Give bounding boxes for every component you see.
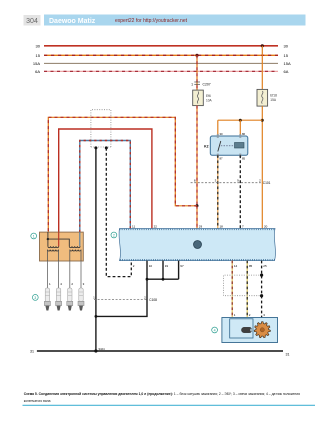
bus 15A [44,62,278,64]
svg-text:22: 22 [154,225,158,229]
svg-text:9: 9 [237,179,239,183]
svg-text:10A: 10A [206,99,213,103]
wire down to relay pin 86 [239,120,241,136]
svg-text:2: 2 [71,282,73,286]
wire red: coil to ECU pin 22 [59,129,152,232]
ECU ground pins 10 19 97 comb [146,261,148,280]
shield box around ignition sensor leads (upper) [91,110,111,147]
wire down to relay pin 30 [217,120,219,136]
wire fuse Ef6 down to node, crossing C101 [196,106,198,206]
svg-text:11: 11 [132,225,135,229]
wire CKP shield (black dashed) ECU pin 25 to sensor pin 3 [261,261,263,318]
svg-text:7: 7 [242,225,244,229]
header page number box [24,15,41,26]
footer rule [23,404,316,406]
svg-text:3: 3 [263,313,265,317]
node branch to relay coil [239,119,242,122]
svg-text:2: 2 [259,179,261,183]
node on bus 30 feeding fuse Ef18 [261,44,264,47]
svg-text:30: 30 [284,44,289,49]
svg-text:1: 1 [33,234,35,238]
svg-text:2: 2 [144,295,146,299]
svg-text:30: 30 [220,132,224,136]
wire relay 87 to ECU pin 18 (orange/black) [217,155,219,228]
svg-text:коленчатого вала: коленчатого вала [24,399,51,403]
svg-text:C207: C207 [203,82,211,86]
node on bus 15 feeding fuse Ef6 [195,54,198,57]
svg-text:3: 3 [34,296,36,300]
wire internal feed jumper [47,232,49,239]
wire branch to ignition coil: left then up then left [48,117,197,232]
svg-text:85: 85 [242,156,246,160]
connector C207 pin 1 [194,81,200,83]
wire relay 85 to ECU pin 7 (black dashed) [239,155,241,228]
component callout 2 [111,232,117,238]
svg-text:1: 1 [93,295,95,299]
ECU U1 (component 2) body [119,229,275,261]
bus 15 [44,54,278,56]
coil T2 primary [69,246,80,247]
component callout 1 [31,233,37,239]
component callout 3 [32,295,38,301]
wire blue lead inside module [79,232,81,246]
svg-text:15A: 15A [270,98,277,102]
reluctor gear [254,322,270,338]
fuse Ef6 10A [193,90,204,106]
node at relay feed split [261,119,264,122]
ECU bottom ticked edge [120,259,275,261]
svg-text:1: 1 [49,282,51,286]
svg-text:10: 10 [149,264,153,268]
svg-text:1: 1 [234,313,236,317]
wire from bus 30 down to fuse Ef18 [261,46,263,90]
coil T2 secondary [70,250,81,251]
svg-text:2: 2 [249,313,251,317]
svg-text:20: 20 [264,225,268,229]
connector C101 [191,182,261,184]
wire node down to ECU pin 29 [196,206,198,229]
relay switch contact [218,141,221,152]
svg-text:expert22 for http://youtracker: expert22 for http://youtracker.net [115,18,188,24]
svg-text:2: 2 [133,264,135,268]
svg-text:304: 304 [26,18,38,25]
svg-text:S104: S104 [99,347,106,351]
svg-text:15: 15 [36,53,41,58]
svg-text:6A: 6A [35,69,40,74]
svg-text:8: 8 [194,179,196,183]
ECU top ticked edge [120,228,276,230]
wire CKP signal + (yellow/red) ECU pin 14 to sensor pin 1 [231,261,233,318]
svg-text:3: 3 [215,179,217,183]
ECU mount circle [194,241,202,249]
wire black solid: shield to ground bus [95,148,97,351]
svg-text:30: 30 [36,44,41,49]
component callout 4 [212,327,218,333]
svg-text:Ef6: Ef6 [206,94,211,98]
svg-text:6A: 6A [284,69,289,74]
svg-text:31: 31 [30,350,34,354]
wire fuse Ef18 down to ECU pin 20, crossing C101 [261,106,263,228]
node shield drain left [94,146,97,149]
coil T1 secondary [47,250,58,251]
svg-text:3: 3 [83,282,85,286]
svg-text:19: 19 [165,264,169,268]
shield box around CKP sensor leads (lower) [224,275,262,296]
coil T1 primary [48,246,59,247]
svg-text:4: 4 [60,282,62,286]
svg-text:C108: C108 [149,298,157,302]
svg-text:Daewoo Matiz: Daewoo Matiz [49,18,96,25]
node coil feed split [47,238,49,240]
wire ground trunk: ECU to splice S104 [96,279,147,316]
bus 6A [44,70,278,72]
relay pin stubs [217,134,219,138]
spark plug P1 [44,288,50,311]
svg-text:15A: 15A [284,61,291,66]
spark plug P3 [78,288,84,311]
fuse Ef18 15A [257,89,268,106]
wire CKP signal - (yellow/black) ECU pin 95 to sensor pin 2 [246,261,248,318]
wire red lead inside module [58,232,60,246]
ground bus 31 [37,350,283,352]
spark plug P4 [56,288,62,311]
relay K2 [210,136,248,155]
svg-text:Ef18: Ef18 [270,94,277,98]
svg-text:15: 15 [284,53,289,58]
wire blue/red: coil to ECU pin 11 [80,141,131,233]
spark plug leads [46,261,48,288]
ignition coil module (component 1) [40,232,84,261]
svg-text:Схема 5. Соединения электронно: Схема 5. Соединения электронной системы … [24,392,300,396]
svg-text:86: 86 [242,132,246,136]
relay coil [235,143,245,149]
svg-text:31: 31 [286,353,290,357]
wire black dashed: to ECU pin 2 [106,148,131,277]
svg-text:14: 14 [234,264,238,268]
svg-text:97: 97 [180,264,184,268]
svg-text:C101: C101 [263,181,271,185]
connector C108 [94,299,148,301]
splice S104 [94,349,97,352]
node joining coil feed branch [196,204,199,207]
crankshaft position sensor B1 (component 4) [222,318,278,343]
wire from bus 15 down to fuse Ef6 [196,55,198,90]
spark plug P2 [67,288,73,311]
svg-text:1: 1 [191,82,193,86]
svg-text:4: 4 [214,328,216,332]
svg-text:15A: 15A [33,61,40,66]
header blue band [44,15,306,26]
svg-text:29: 29 [199,225,203,229]
svg-text:25: 25 [263,264,267,268]
bus 30 [44,45,278,47]
svg-text:18: 18 [220,225,224,229]
svg-text:95: 95 [249,264,253,268]
svg-text:87: 87 [220,156,224,160]
svg-text:K2: K2 [204,145,208,149]
sensor element [242,327,253,332]
svg-text:2: 2 [113,233,115,237]
node shield signal [105,146,108,149]
wire horizontal relay supply [218,119,262,121]
